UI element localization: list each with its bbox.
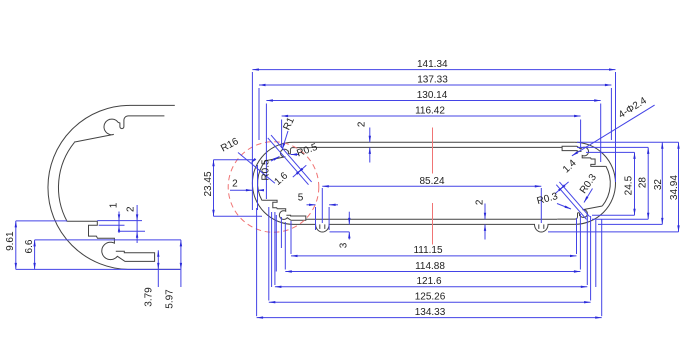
dim 2 top wall upper tail (369, 128, 371, 143)
main profile bottom outer wall with screw bosses (294, 224, 575, 232)
ext line x587.3 (586, 214, 588, 285)
ext line x322.3 bump1 center (321, 188, 323, 223)
dim 34.94 top arrow (677, 142, 679, 149)
dim 2 left wall right arrow (258, 189, 265, 191)
ext line x259 (258, 88, 260, 140)
dim 32 bottom arrow (661, 218, 663, 225)
dim 111.15 left arrow (291, 255, 298, 257)
dim 125.26 line (269, 301, 591, 303)
svg-text:121.6: 121.6 (416, 276, 441, 287)
dim 2 lower arrow (136, 231, 138, 238)
dim 34.94 line (678, 142, 680, 232)
dim 2 bottom wall lower arrow (484, 224, 486, 231)
dim 9.61 line (15, 221, 17, 270)
ext line top surface right (97, 220, 142, 222)
dim 3 ext bottom (330, 231, 350, 233)
screw slot wall (319, 224, 321, 229)
ext line y159.8 for 23.45 (214, 159, 254, 161)
R1 arrow (282, 143, 285, 150)
ext line x611.4 (610, 88, 612, 140)
svg-text:2: 2 (126, 206, 137, 212)
ext line x580.4 (579, 214, 581, 270)
dim 125.26 right arrow (584, 301, 591, 303)
dim 3.79 line (157, 250, 159, 287)
dim 32 top arrow (661, 142, 663, 149)
R0.5 right leader (291, 154, 300, 156)
top-right rail slot and hook (562, 146, 606, 166)
R16 arrow (251, 158, 257, 163)
dim 2 left wall right tail (258, 189, 264, 191)
dim 134.33 left arrow (257, 316, 264, 318)
svg-text:3.79: 3.79 (144, 287, 155, 307)
dim 5 ext left (315, 207, 317, 230)
dim 23.45 top arrow (212, 160, 214, 167)
svg-text:114.88: 114.88 (415, 261, 445, 272)
detail view top outer surface (130, 104, 175, 106)
dim 6.6 line (34, 240, 36, 270)
dim 2 left wall left arrow (246, 189, 253, 191)
dim 141.34 line (252, 69, 615, 71)
ext line y215.3 (592, 214, 635, 216)
ext line top surface left (16, 220, 67, 222)
svg-text:2: 2 (357, 121, 368, 127)
1.4 ext line along channel (556, 185, 586, 220)
dim 116.42 left arrow (282, 115, 289, 117)
R0.5 right arrow (291, 153, 298, 155)
dim 24.5 line (634, 152, 636, 215)
svg-text:85.24: 85.24 (419, 176, 444, 187)
dim 5.97 line (180, 240, 182, 287)
dim 2 bottom wall upper tail (484, 204, 486, 220)
ext line x271.6 (271, 212, 273, 287)
ext line bottom surface left (16, 268, 181, 270)
svg-text:34.94: 34.94 (669, 175, 680, 200)
dim 134.33 line (257, 317, 602, 319)
svg-text:32: 32 (653, 179, 664, 191)
dim 5 left arrow (309, 204, 316, 206)
1.4 arrow a (558, 187, 563, 192)
R0.3 right leader (584, 189, 593, 203)
ext line y219.2 (592, 218, 648, 220)
dim 125.26 left arrow (269, 301, 276, 303)
1.4 dim line (555, 182, 569, 194)
main profile top outer wall (294, 141, 575, 143)
dim 2 line (136, 205, 138, 243)
main profile bottom inner wall (306, 218, 557, 220)
detail view bottom outer surface (130, 268, 180, 270)
svg-text:141.34: 141.34 (417, 59, 448, 70)
ext line x285.3 (284, 222, 286, 270)
dim 116.42 right arrow (574, 115, 581, 117)
4-dia2.4 arrow (572, 151, 578, 155)
svg-text:28: 28 (638, 177, 649, 189)
bottom-right screw boss (557, 206, 602, 219)
main profile left inner wall arc (258, 161, 266, 201)
svg-text:24.5: 24.5 (624, 175, 635, 195)
svg-text:6.6: 6.6 (24, 239, 35, 253)
dim 130.14 left arrow (266, 99, 273, 101)
ext line x281.6 (281, 120, 283, 149)
ext line y231.9 (548, 231, 679, 233)
ext line 2mm step (119, 230, 145, 232)
svg-text:R0.5: R0.5 (261, 159, 272, 181)
main profile right inner wall arc (602, 166, 610, 206)
dim 137.33 right arrow (605, 84, 612, 86)
dim 2 bottom wall lower tail (484, 224, 486, 239)
dim 9.61 top arrow (15, 221, 17, 228)
dim 3 upper arrow (348, 218, 350, 225)
svg-text:9.61: 9.61 (5, 231, 16, 251)
dim 3 upper tail (348, 212, 350, 225)
detail view screw boss (74, 116, 164, 142)
dim 3.79 top arrow (157, 250, 159, 256)
ext line y142.2 (577, 141, 679, 143)
dim 137.33 left arrow (259, 84, 266, 86)
1.6 ext line along channel (268, 138, 309, 185)
svg-text:116.42: 116.42 (415, 106, 445, 117)
dim 141.34 left arrow (252, 68, 259, 70)
1.6 arrow b (296, 170, 301, 175)
dim 28 line (647, 147, 649, 219)
ext line x615.5 (615, 72, 617, 182)
dim 24.5 bottom arrow (633, 209, 635, 216)
dim 116.42 line (282, 115, 581, 117)
1.6 arrow a (298, 168, 303, 173)
svg-text:5.97: 5.97 (165, 289, 176, 309)
red dashed detail circle (228, 142, 319, 233)
dim 85.24 right arrow (535, 185, 542, 187)
screw slot wall (543, 224, 545, 229)
detail view rail slot and screw hook (67, 221, 154, 261)
svg-text:137.33: 137.33 (417, 75, 448, 86)
detail view outer wall arc (48, 105, 130, 269)
svg-text:134.33: 134.33 (415, 307, 446, 318)
dim 114.88 right arrow (574, 270, 581, 272)
dim 5 right arrow (329, 204, 336, 206)
dim 121.6 left arrow (275, 286, 282, 288)
1.6 ext line along channel (271, 135, 312, 182)
ext line x580.6 (580, 120, 582, 149)
ext line x274.9 (274, 212, 276, 285)
svg-text:130.14: 130.14 (417, 90, 448, 101)
R0.3 left arrow (565, 206, 572, 210)
dim 3 lower arrow (348, 232, 350, 239)
R1 leader line (282, 131, 288, 150)
vertical center line upper segment (432, 128, 434, 174)
dim 6.6 top arrow (33, 240, 35, 247)
dim 130.14 right arrow (594, 99, 601, 101)
dim 5.97 bottom arrow (180, 263, 182, 270)
dim 5 ext right (328, 207, 330, 230)
dim 23.45 bottom arrow (212, 210, 214, 217)
ext line x576.5 (576, 218, 578, 254)
dim 9.61 bottom arrow (15, 263, 17, 270)
ext line x256.6 (256, 208, 258, 316)
dim 85.24 line (322, 185, 541, 187)
dim 2 upper arrow (136, 214, 138, 221)
bottom-left rail slot and hook (262, 200, 306, 220)
dim 2 top wall lower arrow (369, 147, 371, 154)
dim 114.88 left arrow (285, 270, 292, 272)
ext line x266.4 (265, 104, 267, 200)
ext line x252.4 (251, 72, 253, 210)
dim 2 top wall upper arrow (369, 136, 371, 143)
R0.5 left leader arrow (273, 157, 279, 161)
dim 5 left tail (307, 204, 316, 206)
dim 2 bottom wall upper arrow (484, 213, 486, 220)
dim 24.5 top arrow (633, 152, 635, 159)
dim 85.24 left arrow (322, 185, 329, 187)
svg-text:111.15: 111.15 (413, 245, 443, 256)
dim 137.33 line (259, 84, 611, 86)
dim 1 lower arrow (118, 225, 120, 232)
dim 2 top wall lower tail (369, 147, 371, 162)
dim 1 line (118, 212, 120, 234)
ext line 1mm step (99, 224, 125, 226)
ext line y224.4 (598, 223, 662, 225)
top-left screw boss (266, 148, 311, 161)
main profile top inner wall (311, 146, 562, 148)
dim 32 line (661, 142, 663, 224)
dim 28 bottom arrow (647, 213, 649, 220)
R0.3 right arrow (584, 196, 588, 202)
1.4 arrow b (560, 184, 565, 189)
ext line x600.7 (600, 104, 602, 163)
ext line x590.6 (590, 216, 592, 301)
main profile left outer cap arc (252, 142, 293, 224)
ext line x268.8 (268, 207, 270, 301)
vertical center line lower segment (432, 203, 434, 245)
ext line y216.3 for 23.45 (214, 215, 263, 217)
dim 141.34 right arrow (609, 68, 616, 70)
dim 114.88 line (285, 271, 580, 273)
screw slot wall (324, 224, 326, 229)
svg-text:5: 5 (298, 193, 304, 204)
4-dia2.4 leader line (572, 105, 655, 156)
dim 34.94 bottom arrow (677, 225, 679, 232)
R16 leader line (238, 153, 275, 184)
dim 111.15 line (291, 255, 577, 257)
screw slot wall (538, 224, 540, 229)
ext line y239.9 (35, 239, 181, 241)
detail view inner wall arc (58, 142, 74, 221)
svg-text:1: 1 (108, 202, 119, 208)
svg-text:2: 2 (475, 199, 486, 205)
ext line y147.4 (577, 146, 648, 148)
dim 3 lower tail (348, 232, 350, 240)
dim 134.33 right arrow (595, 316, 602, 318)
R0.5 left leader (271, 157, 280, 162)
dim 121.6 right arrow (581, 286, 588, 288)
ext line x595.8 (595, 220, 597, 287)
svg-text:23.45: 23.45 (203, 171, 214, 196)
main profile right outer cap arc (574, 142, 615, 224)
dim 121.6 line (275, 286, 587, 288)
ext line x291 (290, 221, 292, 254)
dim 23.45 line (213, 160, 215, 217)
dim 5.97 top arrow (180, 240, 182, 247)
dim 5 right tail (329, 204, 338, 206)
dim 6.6 bottom arrow (33, 263, 35, 270)
dim 28 top arrow (647, 147, 649, 154)
svg-text:2: 2 (232, 179, 238, 190)
dim 111.15 right arrow (570, 255, 577, 257)
ext line x601.7 (601, 219, 603, 316)
svg-text:125.26: 125.26 (415, 292, 446, 303)
1.4 ext line along channel (559, 182, 589, 217)
ext line y152.4 (586, 151, 635, 153)
1.6 dim line (293, 165, 307, 177)
ext line x257.5 (257, 165, 259, 210)
ext line x541.3 bump2 center (540, 188, 542, 223)
dim 1 upper arrow (118, 214, 120, 221)
dim 130.14 line (266, 100, 600, 102)
dim 3.79 bottom arrow (157, 263, 159, 270)
dim 2 left wall left tail (230, 189, 252, 191)
ext line x281.4 (280, 217, 282, 248)
ext line x276.3 (275, 215, 277, 272)
svg-text:3: 3 (338, 242, 349, 248)
R0.3 left leader (557, 204, 571, 210)
